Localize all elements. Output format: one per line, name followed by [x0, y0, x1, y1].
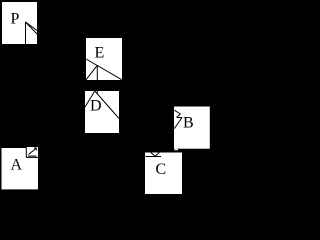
mark baseline in B [177, 117, 183, 119]
window B [174, 107, 210, 149]
svg-text:P: P [11, 11, 20, 28]
svg-text:D: D [90, 98, 102, 115]
icon arrow barb horizontal [34, 147, 37, 149]
icon arrow shaft in A [29, 148, 37, 155]
wire long diagonal D to C notch [95, 91, 119, 119]
window C [145, 153, 182, 195]
window A [2, 148, 39, 189]
wire vertical in P [25, 22, 27, 44]
notch square border bottom [146, 156, 162, 158]
svg-text:E: E [95, 45, 105, 62]
wire steep diagonal in E [86, 65, 97, 80]
wire vertical E to D [96, 65, 98, 94]
icon arrow barb vertical [35, 148, 37, 151]
wire diagonal B to C notch [174, 118, 182, 129]
svg-text:C: C [156, 161, 167, 178]
wire wedge lower in P [26, 22, 38, 34]
icon square border left [25, 147, 27, 158]
mark stroke 2 in B [177, 114, 181, 118]
icon arrow baseline in A [28, 155, 37, 157]
window D [85, 91, 119, 133]
icon square border bottom [26, 156, 38, 158]
mark stroke 1 in B [174, 110, 180, 114]
window B bottom-left tab [174, 149, 178, 151]
wire long diagonal in E [86, 59, 122, 80]
arrowhead V right arm in C [155, 153, 159, 157]
window P [2, 2, 37, 44]
wire left diagonal in D [85, 91, 95, 107]
icon square on window A [26, 147, 38, 158]
wire wedge upper in P [26, 22, 38, 31]
arrowhead V left arm in C [151, 153, 155, 157]
svg-text:A: A [11, 157, 23, 174]
window E [86, 38, 122, 80]
svg-text:B: B [183, 115, 194, 132]
